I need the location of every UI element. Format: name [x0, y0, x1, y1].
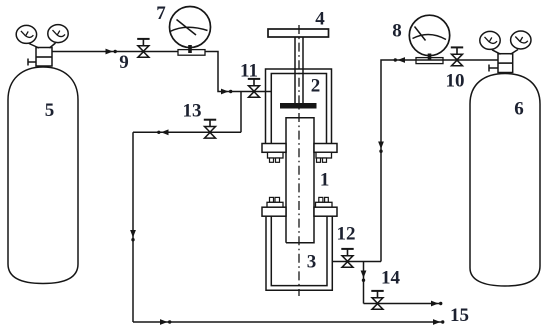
- regulator 6 right gauge: [511, 31, 531, 49]
- piston rod: [294, 37, 296, 103]
- regulator 5 right gauge: [48, 25, 68, 43]
- svg-text:5: 5: [45, 100, 55, 121]
- top flange left step: [268, 152, 284, 158]
- top bar 4: [268, 29, 329, 37]
- valve 12: [341, 249, 353, 267]
- top flange right step: [316, 152, 332, 158]
- svg-text:4: 4: [315, 8, 325, 29]
- svg-text:3: 3: [307, 251, 317, 272]
- gauge 8: [409, 15, 449, 55]
- vessel 2 inner wall: [271, 74, 326, 144]
- svg-text:14: 14: [381, 267, 401, 288]
- arrow on wire to valve 9: [106, 49, 117, 55]
- svg-text:15: 15: [450, 305, 469, 326]
- regulator body on cylinder 6: [498, 54, 513, 73]
- valve 14: [371, 291, 383, 309]
- arrow down on junction drop: [361, 271, 367, 282]
- bottom flange left plate: [262, 207, 286, 216]
- arrow at end of line 15: [433, 319, 444, 325]
- regulator 6 left gauge: [480, 31, 500, 49]
- wire: valve 12 line: [332, 261, 381, 263]
- top flange bolts: [270, 158, 274, 162]
- gauge 7 mount: [178, 50, 205, 56]
- valve 9: [137, 39, 149, 57]
- bottom flange right plate: [314, 207, 337, 216]
- arrow right near bottom-left corner: [160, 319, 171, 325]
- wire: left vertical down: [132, 132, 134, 322]
- arrow left on gauge 8 wire: [394, 57, 405, 63]
- centerline dash-dot: [298, 25, 300, 296]
- cylinder 5: [8, 67, 78, 284]
- arrow at end of valve 14 line: [431, 301, 442, 307]
- wire: bottom line 15: [133, 321, 441, 323]
- regulator 6 gauge stems: [492, 50, 501, 54]
- inner tube 1: [286, 118, 314, 243]
- regulator 5 hand valve: [28, 61, 36, 63]
- gauge 8 stem: [428, 54, 432, 61]
- svg-text:13: 13: [183, 100, 202, 121]
- arrow down on left vertical: [130, 230, 136, 241]
- wire: junction drop to valve 14 line: [363, 262, 365, 304]
- wire: valve 13 line: [133, 131, 241, 133]
- vessel 3 inner wall: [271, 216, 327, 285]
- svg-text:7: 7: [156, 3, 166, 24]
- vessel 2 outer wall: [266, 69, 332, 144]
- wire: valve 14 line: [364, 303, 440, 305]
- cylinder 6: [470, 74, 540, 287]
- valve 13: [204, 120, 216, 138]
- arrow on valve 11 wire: [221, 89, 232, 95]
- svg-text:2: 2: [311, 75, 321, 96]
- arrow down on right vertical: [378, 142, 384, 153]
- svg-text:6: 6: [514, 98, 524, 119]
- svg-text:1: 1: [320, 169, 330, 190]
- svg-text:9: 9: [119, 52, 129, 73]
- svg-text:11: 11: [240, 60, 258, 81]
- regulator 5 gauge stems: [29, 44, 39, 49]
- wire: regulator5 to corner above valve 11: [52, 52, 272, 92]
- arrow left on valve 13 wire: [157, 129, 168, 135]
- gauge 8 mount: [416, 58, 443, 64]
- bottom flange bolts: [270, 197, 274, 202]
- gauge 7 stem: [188, 45, 192, 53]
- regulator body on cylinder 5: [36, 48, 52, 67]
- wire: branch down to valve 13 line: [240, 92, 242, 133]
- gauge 7: [170, 7, 211, 48]
- piston plate: [280, 103, 317, 109]
- valve 11: [248, 79, 260, 97]
- top flange left plate: [262, 144, 286, 153]
- regulator 5 left gauge: [16, 25, 36, 43]
- svg-text:8: 8: [392, 20, 402, 41]
- regulator 6 hand valve: [489, 67, 498, 69]
- wire: corner to regulator 6: [381, 60, 498, 262]
- valve 10: [451, 47, 463, 65]
- svg-text:10: 10: [446, 70, 465, 91]
- bottom flange right step: [316, 202, 333, 207]
- top flange right plate: [314, 144, 337, 153]
- svg-text:12: 12: [337, 223, 356, 244]
- bottom flange left step: [267, 202, 283, 207]
- vessel 3 outer wall: [266, 216, 332, 290]
